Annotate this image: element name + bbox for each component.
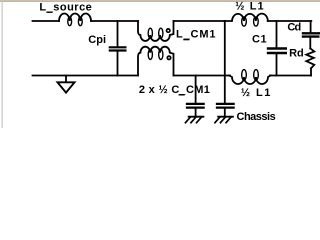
wire bottom rail right [270, 75, 311, 77]
wire bottom rail mid [174, 75, 231, 77]
wire Rd bottom stub [310, 68, 312, 75]
left border line [2, 0, 3, 128]
wire top rail left [33, 20, 60, 22]
wire Cd top stub [310, 21, 312, 32]
svg-text:½ L1: ½ L1 [235, 1, 264, 13]
wire chassis cap1 top stub [195, 76, 197, 103]
inductor L_source [59, 13, 91, 25]
wire C1 bottom stub [276, 54, 278, 75]
wire chassis stem 2 [224, 109, 226, 116]
top border line [0, 0, 320, 1]
capacitor Cd [303, 33, 320, 36]
svg-text:Cd: Cd [287, 22, 300, 34]
chassis ground 2 [214, 117, 233, 124]
wire chassis stem 1 [195, 109, 197, 116]
inductor half L1 top [225, 14, 268, 26]
wire Cpi top stub [117, 21, 119, 46]
wire top rail after choke [174, 20, 225, 22]
resistor Rd zigzag [306, 48, 314, 68]
top winding of L_CM1 [138, 21, 174, 41]
wire bottom rail left [33, 75, 139, 77]
inductor half L1 bottom [229, 70, 271, 84]
wire top rail right [268, 20, 312, 22]
capacitor C1 [268, 49, 286, 54]
underscore of L_source label [46, 12, 52, 13]
chassis ground 1 [185, 117, 204, 124]
ground stem [65, 76, 67, 82]
capacitor C_CM1 a [187, 104, 204, 108]
svg-text:L_source: L_source [39, 1, 92, 13]
bottom winding of L_CM1 [138, 47, 174, 76]
underscore of L_CM1 label [183, 39, 189, 40]
ground symbol (open triangle) [58, 82, 75, 92]
capacitor Cpi [110, 47, 126, 50]
svg-text:½ L1: ½ L1 [241, 87, 272, 99]
wire Cpi bottom stub [117, 52, 119, 76]
svg-text:L_CM1: L_CM1 [176, 29, 216, 41]
wire Cd-Rd connector [309, 38, 311, 49]
svg-text:Cpi: Cpi [88, 34, 106, 46]
wire top rail mid [91, 20, 138, 22]
wire long vertical node to chassis cap 2 [224, 21, 226, 103]
underscore of C_CM1 label [179, 94, 185, 95]
svg-text:Rd: Rd [289, 48, 303, 60]
capacitor C_CM1 b [217, 104, 234, 108]
svg-text:2 x ½ C_CM1: 2 x ½ C_CM1 [139, 84, 210, 96]
svg-text:Chassis: Chassis [237, 111, 276, 123]
wire C1 top stub [276, 21, 278, 47]
svg-text:C1: C1 [252, 33, 267, 45]
